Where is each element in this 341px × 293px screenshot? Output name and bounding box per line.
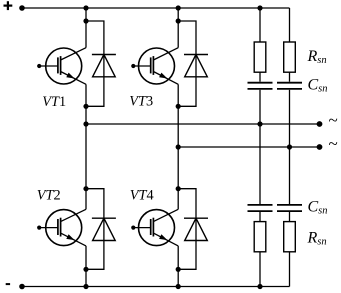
- node VD3 branch split: [176, 18, 181, 23]
- transistor VT3 (IGBT): [131, 48, 178, 85]
- wire leg B emitter to bottom bus: [177, 246, 179, 287]
- node leg A / bottom bus junction: [83, 284, 88, 289]
- wire leg A emitter to bottom bus: [85, 246, 87, 287]
- wire VD1 branch: [86, 21, 104, 106]
- wire VD2 branch: [86, 189, 104, 270]
- wire snubber column 2 upper: [289, 8, 291, 42]
- diode VD2: [92, 218, 116, 240]
- wire snubber column 1 lower: [259, 252, 261, 287]
- node VD2 branch split: [83, 186, 88, 191]
- wire leg A emitter to VT2 collector: [85, 84, 87, 209]
- node VD3 anode rejoin: [176, 104, 181, 109]
- wire VD3 branch: [178, 21, 196, 106]
- wire Csn to Rsn link (col 2 bottom): [289, 212, 291, 222]
- svg-text:VT1: VT1: [42, 94, 66, 110]
- capacitor Csn upper-right: [277, 83, 302, 89]
- capacitor Csn upper-left: [248, 83, 273, 89]
- node bottom bus / snubber column 1 junction: [257, 284, 262, 289]
- plus terminal label: [4, 1, 13, 10]
- wire leg B emitter to VT4 collector: [177, 84, 179, 209]
- node VD2 anode rejoin: [83, 267, 88, 272]
- node AC output terminal 1: [317, 121, 323, 127]
- node VD4 branch split: [176, 186, 181, 191]
- transistor VT1 (IGBT): [37, 48, 86, 85]
- diode VD4: [184, 218, 208, 240]
- capacitor Csn lower-right: [277, 205, 302, 211]
- wire snubber column 2 middle: [289, 90, 291, 204]
- node leg B / bottom bus junction: [176, 284, 181, 289]
- node positive input terminal: [19, 5, 25, 11]
- node output line 1 / snubber column 1 junction: [257, 121, 262, 126]
- minus terminal label: [6, 283, 10, 285]
- svg-text:VT3: VT3: [129, 94, 153, 110]
- wire snubber column 1 upper: [259, 8, 261, 42]
- node output line 2 / snubber column 2 junction: [287, 144, 292, 149]
- wire Rsn to Csn link (col 2 top): [289, 72, 291, 82]
- capacitor Csn lower-left: [248, 205, 273, 211]
- wire Csn to Rsn link (col 1 bottom): [259, 212, 261, 222]
- wire VD4 branch: [178, 189, 196, 270]
- wire snubber column 2 lower: [289, 252, 291, 287]
- resistor Rsn upper-right: [284, 42, 296, 72]
- transistor VT2 (IGBT): [37, 209, 86, 246]
- wire leg A collector segment: [85, 8, 87, 48]
- svg-text:VT4: VT4: [130, 188, 154, 204]
- node leg B output tap: [176, 144, 181, 149]
- resistor Rsn lower-left: [254, 222, 266, 252]
- node AC output terminal 2: [317, 144, 323, 150]
- resistor Rsn lower-right: [284, 222, 296, 252]
- node negative input terminal: [19, 284, 25, 290]
- diode VD1: [92, 55, 116, 77]
- wire AC output line 1: [86, 123, 320, 125]
- transistor VT4 (IGBT): [131, 209, 178, 246]
- svg-text:~: ~: [329, 134, 338, 153]
- node VD4 anode rejoin: [176, 267, 181, 272]
- diode VD3: [184, 55, 208, 77]
- node top bus / leg B junction: [176, 5, 181, 10]
- node VD1 branch split: [83, 18, 88, 23]
- node leg A output tap: [83, 121, 88, 126]
- wire AC output line 2: [178, 146, 319, 148]
- wire snubber column 1 middle: [259, 90, 261, 204]
- wire bottom DC bus: [22, 286, 290, 288]
- svg-text:VT2: VT2: [37, 188, 61, 204]
- wire leg B collector segment: [177, 8, 179, 48]
- node top bus / leg A junction: [83, 5, 88, 10]
- wire top DC bus: [22, 7, 290, 9]
- wire Rsn to Csn link (col 1 top): [259, 72, 261, 82]
- resistor Rsn upper-left: [254, 42, 266, 72]
- node VD1 anode rejoin: [83, 104, 88, 109]
- node top bus / snubber column 1 junction: [257, 5, 262, 10]
- svg-text:~: ~: [329, 111, 338, 130]
